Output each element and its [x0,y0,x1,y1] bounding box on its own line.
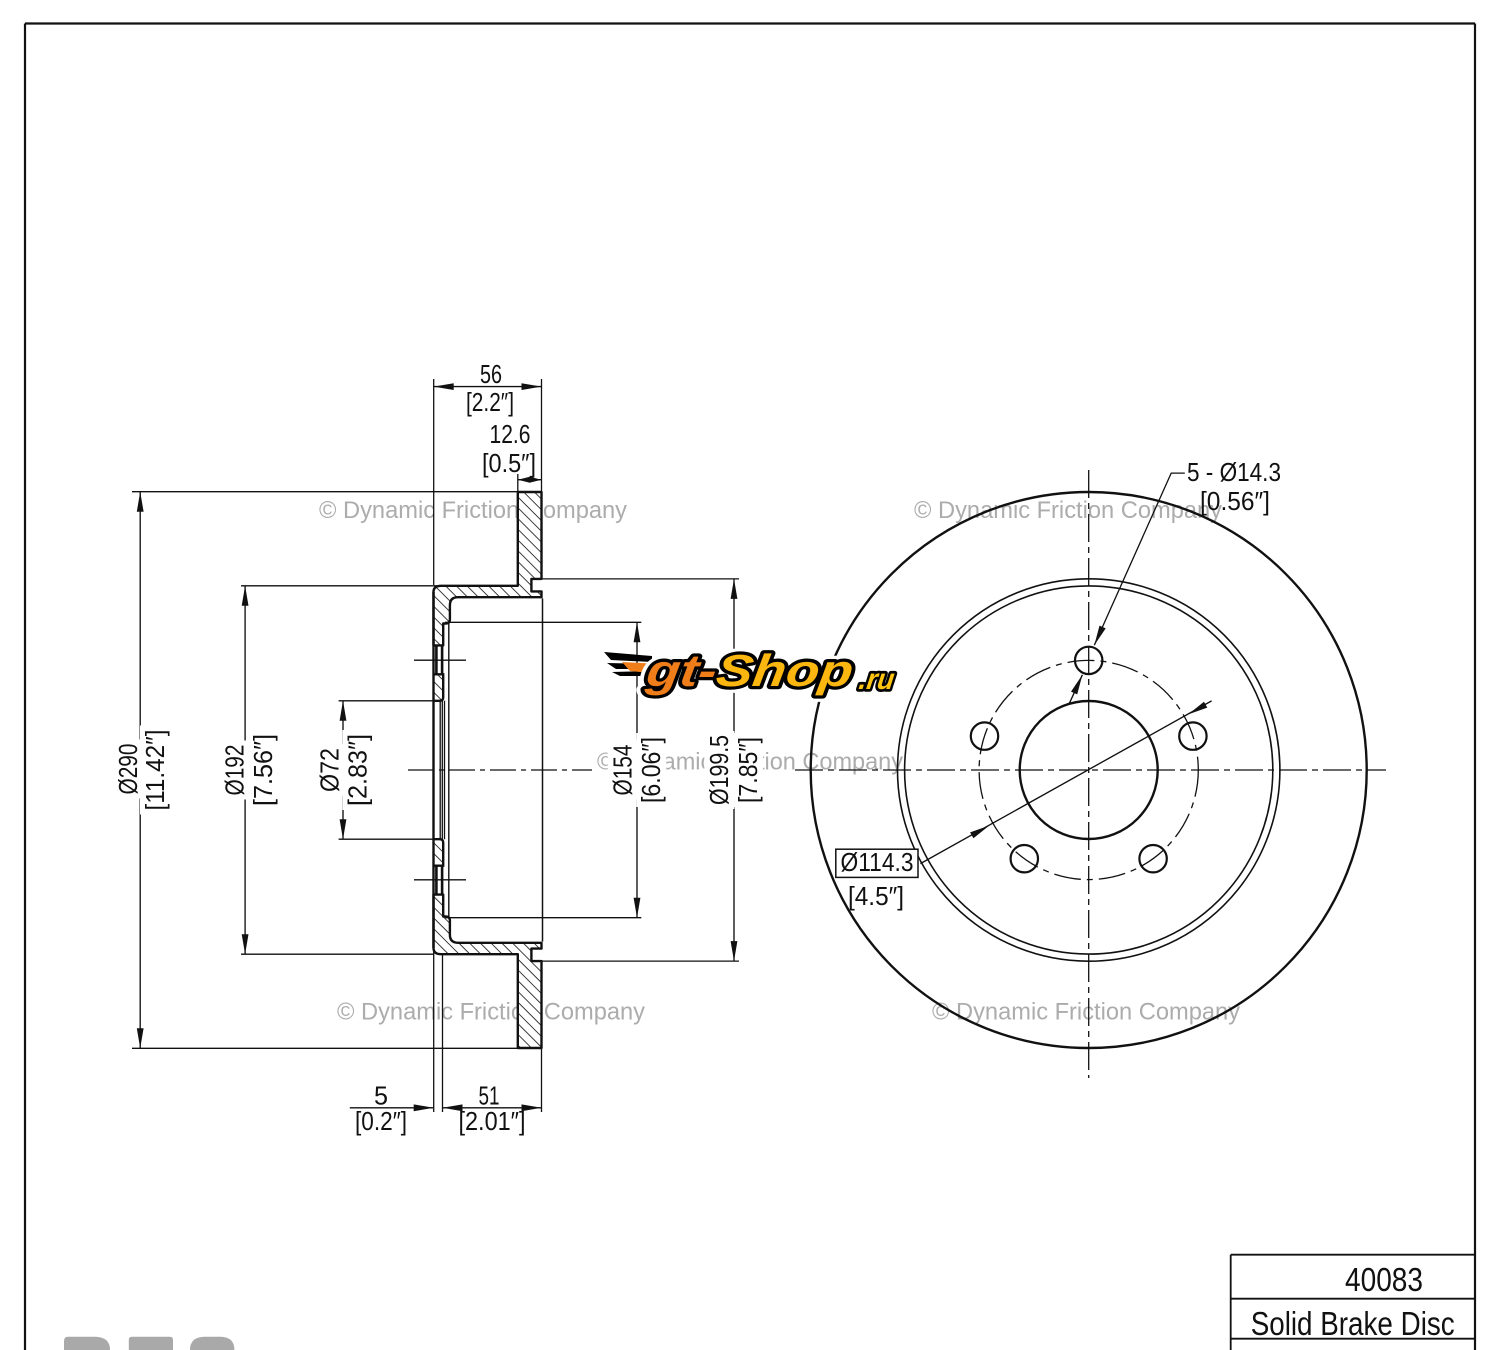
circle D192 [905,586,1273,954]
svg-text:gt-Shop: gt-Shop [642,645,856,696]
svg-text:Solid Brake Disc: Solid Brake Disc [1251,1305,1455,1342]
hub cavity silhouette bottom [445,917,641,919]
section axis centerline [408,769,592,771]
title block table [1231,1254,1476,1256]
dim D72 line [342,701,344,839]
dim text D192 [219,741,249,800]
DFC logo letter D (cropped) [64,1337,110,1350]
bolt circle D114.3 dash-dot [979,660,1198,879]
drawing sheet border frame [25,22,1475,24]
svg-text:.ru: .ru [857,664,897,696]
dim D199.5 line [733,579,735,961]
svg-text:© Dynamic Friction Company: © Dynamic Friction Company [337,999,645,1026]
mounting face edge [432,592,434,948]
dim text D199.5 [704,731,734,809]
svg-text:[7.85″]: [7.85″] [733,737,763,803]
dim text 7.85in [733,733,763,807]
hub recess corner projection line [448,624,450,917]
dim text D154 [608,741,638,800]
section view hatched body bottom half [434,895,542,1048]
svg-text:© Dynamic Friction Company: © Dynamic Friction Company [319,497,627,524]
svg-text:Ø154: Ø154 [608,745,638,796]
DFC logo letter F (cropped) [129,1337,173,1350]
dim 56 line [434,386,542,388]
extension line ring inner face [517,474,519,492]
extension line D72 bottom [339,838,433,840]
bolt hole 1 D14.3 [1075,647,1102,674]
svg-text:[6.06″]: [6.06″] [636,737,666,803]
leader line 5-D14.3 [1094,473,1185,645]
svg-text:[0.5″]: [0.5″] [482,448,536,478]
bolt hole section bar front bottom [435,866,438,895]
svg-text:[2.83″]: [2.83″] [342,734,372,806]
bolt hole axis bottom [414,879,466,881]
svg-text:Ø192: Ø192 [219,745,249,796]
dim text 11.42in [140,726,170,815]
svg-text:[4.5″]: [4.5″] [848,881,904,911]
svg-text:Ø290: Ø290 [113,744,143,795]
svg-text:56: 56 [480,359,502,389]
extension line D192 bottom [241,953,434,955]
bolt hole 3 D14.3 [1139,845,1166,872]
bolt hole section bar back top [441,645,444,674]
flange upper outline bottom half [434,839,444,866]
dim D114.3 diagonal line [920,701,1211,864]
svg-text:12.6: 12.6 [490,419,531,449]
svg-text:[7.56″]: [7.56″] [248,734,278,806]
bolt hole section bar front top [435,645,438,674]
bolt hole 5 D14.3 [1011,845,1038,872]
extension line D199.5 top [542,578,739,580]
svg-text:[11.42″]: [11.42″] [140,730,170,811]
extension line D192 top [241,585,437,587]
svg-text:Ø114.3: Ø114.3 [841,847,914,877]
outer face projection line [542,598,544,941]
svg-text:[0.2″]: [0.2″] [355,1106,407,1136]
svg-text:© Dynamic Friction Company: © Dynamic Friction Company [914,497,1222,524]
svg-text:[0.56″]: [0.56″] [1200,486,1270,516]
dim text 6.06in [636,733,666,807]
bolt hole 4 D14.3 [971,722,998,749]
circle D199.5 [897,579,1279,961]
dim text D290 [113,740,143,799]
bore back opening edge [444,701,446,839]
svg-text:Ø72: Ø72 [314,748,344,792]
bolt hole 2 D14.3 [1179,722,1206,749]
gt-shop.ru logo text [642,645,856,696]
bolt hole section bar back bottom [441,866,444,895]
extension line mounting face [433,379,435,585]
svg-text:[2.2″]: [2.2″] [466,387,514,417]
bore front opening edge [439,701,441,839]
center bore D72 [1020,701,1158,839]
extension line D72 top [339,700,433,702]
extension line flange back face [442,955,444,1112]
bolt hole axis top [414,659,466,661]
extension line D290 top [132,491,518,493]
svg-text:40083: 40083 [1345,1261,1423,1298]
svg-text:© Dynamic Friction Company: © Dynamic Friction Company [932,999,1240,1026]
front view vertical centerline [1088,470,1090,1078]
dim text 2.83in [342,730,372,810]
extension line outer face [541,379,543,492]
hub cavity silhouette top [445,621,641,623]
dim D154 line [636,622,638,917]
front view horizontal centerline [795,769,1386,771]
svg-text:5 - Ø14.3: 5 - Ø14.3 [1187,457,1281,487]
dim text D72 [314,744,344,796]
section view hatched flange lower part top half [434,674,444,701]
label D114.3 box [836,849,918,877]
dim D290 line [139,492,141,1049]
dim 12.6 arrows [518,479,542,481]
dim 5 line [350,1107,434,1109]
friction ring outline top [434,492,542,645]
svg-text:[2.01″]: [2.01″] [459,1106,526,1136]
bore back face edge [441,701,443,839]
friction ring outline bottom [434,895,542,1048]
extension line D199.5 bottom [542,960,739,962]
section view hatched flange upper part bottom half [434,839,444,866]
dim D192 line [244,586,246,954]
flange lower outline top half [434,674,444,701]
svg-text:Ø199.5: Ø199.5 [704,735,734,805]
section view hatched body top half [434,492,542,645]
dim text 7.56in [248,730,278,810]
extension line D290 bottom [132,1047,518,1049]
gt-shop.ru logo speed lines [604,645,897,696]
leader tail below hole [1069,675,1083,705]
outer circle D290 [811,492,1367,1048]
dim 51 line [443,1107,542,1109]
DFC logo letter C (cropped) [190,1337,234,1350]
